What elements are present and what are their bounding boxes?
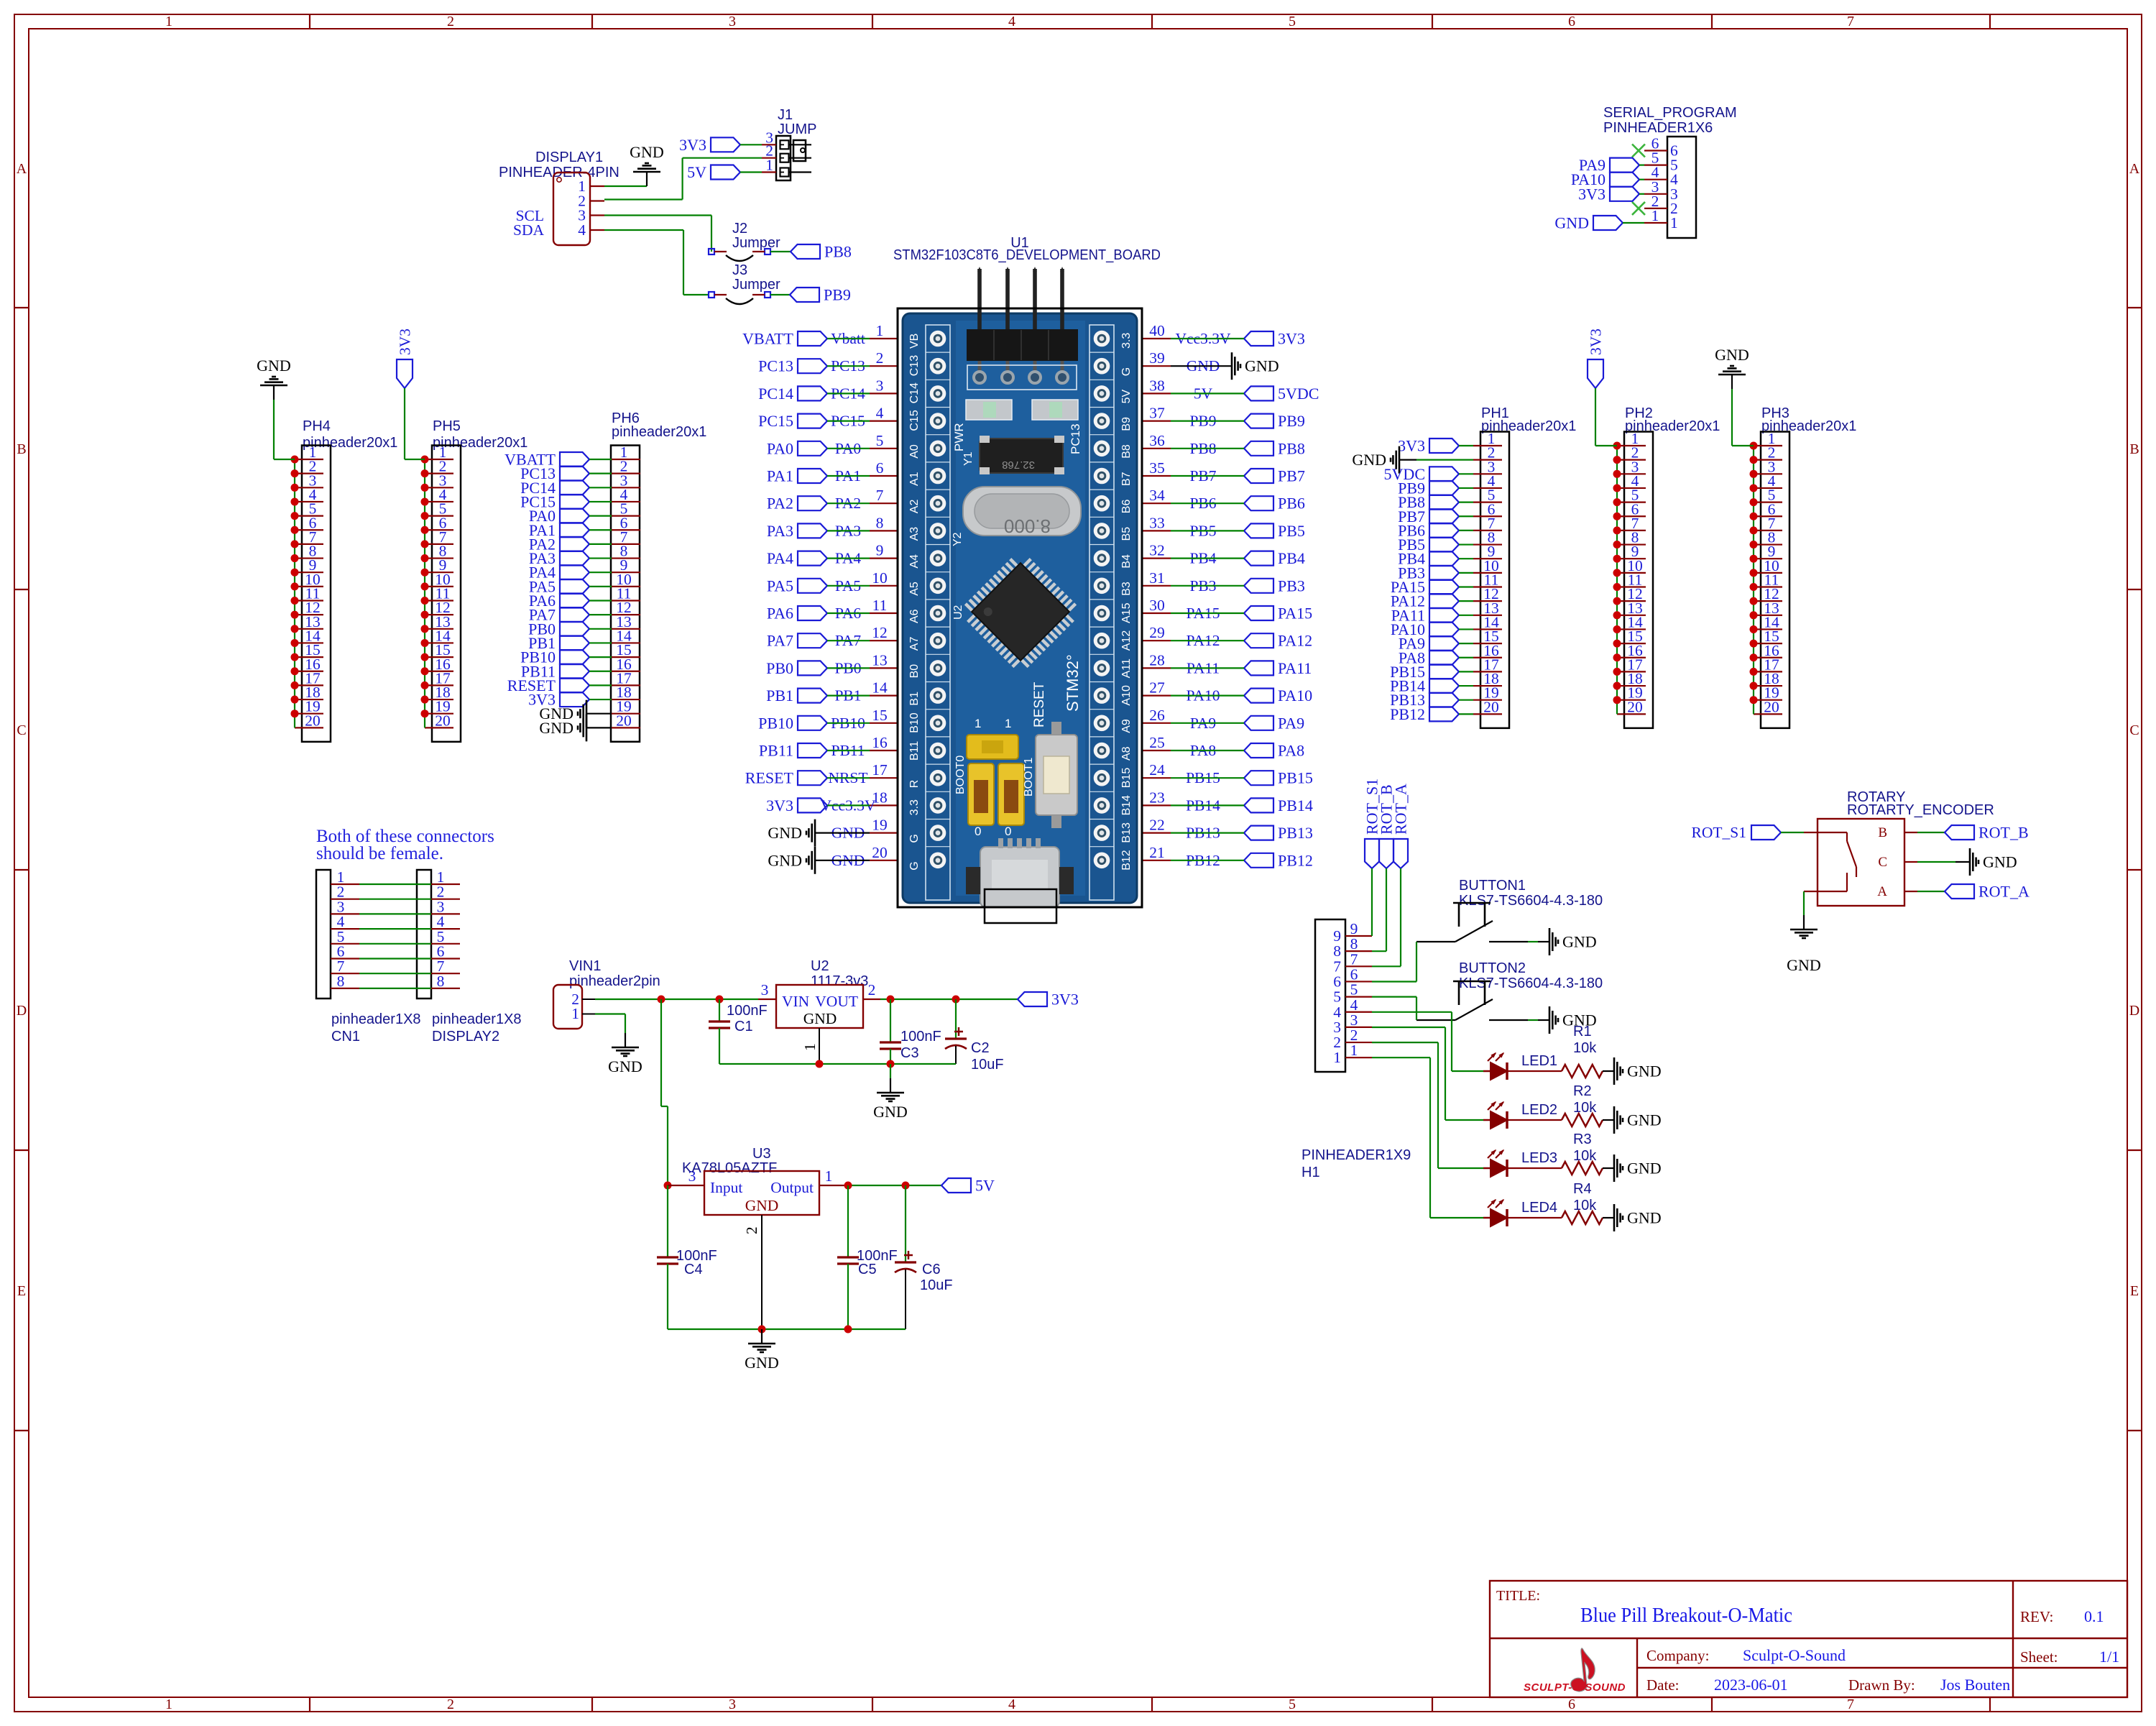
svg-text:PA10: PA10 <box>1278 687 1312 704</box>
svg-text:A3: A3 <box>908 527 921 541</box>
svg-text:GND: GND <box>630 143 664 161</box>
svg-text:Sheet:: Sheet: <box>2020 1648 2058 1666</box>
svg-text:2: 2 <box>447 1697 454 1712</box>
svg-text:32: 32 <box>1149 542 1165 559</box>
svg-text:3: 3 <box>729 14 736 29</box>
svg-text:4: 4 <box>876 405 884 422</box>
svg-text:pinheader20x1: pinheader20x1 <box>433 435 528 451</box>
svg-text:1: 1 <box>571 1005 579 1022</box>
svg-text:3: 3 <box>761 981 769 999</box>
svg-text:H1: H1 <box>1302 1165 1320 1180</box>
svg-text:R3: R3 <box>1573 1131 1592 1147</box>
svg-text:7: 7 <box>876 487 884 504</box>
svg-text:PH5: PH5 <box>433 418 461 434</box>
svg-text:A: A <box>1877 884 1887 899</box>
svg-text:1: 1 <box>825 1167 833 1185</box>
svg-text:4: 4 <box>578 221 586 239</box>
svg-text:ROT_B: ROT_B <box>1978 824 2029 842</box>
svg-text:13: 13 <box>872 651 888 669</box>
svg-text:20: 20 <box>435 712 451 729</box>
svg-text:5V: 5V <box>975 1177 995 1195</box>
svg-text:10k: 10k <box>1573 1198 1597 1213</box>
svg-text:21: 21 <box>1149 844 1165 861</box>
svg-text:8: 8 <box>437 973 445 990</box>
svg-text:4: 4 <box>1008 1697 1015 1712</box>
svg-text:3V3: 3V3 <box>679 136 706 154</box>
svg-text:17: 17 <box>872 761 888 779</box>
svg-text:10: 10 <box>872 569 888 587</box>
svg-text:PB3: PB3 <box>1278 577 1305 595</box>
svg-text:Jumper: Jumper <box>732 277 780 293</box>
svg-text:5: 5 <box>876 432 884 449</box>
svg-text:30: 30 <box>1149 597 1165 614</box>
svg-text:5VDC: 5VDC <box>1278 385 1319 403</box>
svg-text:10k: 10k <box>1573 1148 1597 1164</box>
svg-text:PB12: PB12 <box>1278 851 1313 869</box>
svg-text:38: 38 <box>1149 377 1165 394</box>
svg-text:R4: R4 <box>1573 1181 1592 1197</box>
svg-text:B13: B13 <box>1120 822 1133 843</box>
svg-text:PINHEADER1X6: PINHEADER1X6 <box>1603 120 1713 136</box>
svg-text:GND: GND <box>745 1354 779 1372</box>
svg-text:U2: U2 <box>811 958 829 974</box>
svg-text:PB13: PB13 <box>1278 824 1313 842</box>
svg-text:37: 37 <box>1149 405 1165 422</box>
svg-text:8: 8 <box>876 514 884 531</box>
svg-text:B6: B6 <box>1120 500 1133 514</box>
svg-text:33: 33 <box>1149 514 1165 531</box>
svg-text:1: 1 <box>876 322 884 339</box>
svg-text:B5: B5 <box>1120 527 1133 541</box>
svg-text:PA2: PA2 <box>767 495 793 513</box>
svg-text:GND: GND <box>1627 1160 1662 1178</box>
svg-text:PA8: PA8 <box>1278 742 1304 760</box>
svg-text:A9: A9 <box>1120 719 1133 733</box>
svg-text:KA78L05AZTF: KA78L05AZTF <box>682 1160 777 1176</box>
svg-text:PB7: PB7 <box>1278 467 1305 485</box>
svg-text:3V3: 3V3 <box>1278 330 1305 348</box>
svg-text:10uF: 10uF <box>920 1277 953 1293</box>
svg-text:G: G <box>1120 367 1133 376</box>
svg-text:2: 2 <box>447 14 454 29</box>
svg-text:1: 1 <box>765 157 773 174</box>
svg-text:Company:: Company: <box>1646 1647 1710 1664</box>
svg-text:A2: A2 <box>908 500 921 514</box>
svg-text:PC15: PC15 <box>758 412 793 430</box>
svg-text:2: 2 <box>868 981 876 999</box>
svg-text:20: 20 <box>616 712 632 729</box>
svg-text:A8: A8 <box>1120 746 1133 761</box>
svg-text:3V3: 3V3 <box>397 329 414 355</box>
svg-text:GND: GND <box>745 1197 779 1214</box>
svg-text:29: 29 <box>1149 624 1165 641</box>
svg-text:8: 8 <box>337 973 345 990</box>
svg-text:pinheader20x1: pinheader20x1 <box>303 435 397 451</box>
svg-text:A10: A10 <box>1120 685 1133 706</box>
svg-text:14: 14 <box>872 679 888 697</box>
svg-text:Drawn By:: Drawn By: <box>1848 1676 1915 1694</box>
svg-text:VIN: VIN <box>782 993 810 1010</box>
svg-text:32.768: 32.768 <box>1002 459 1035 471</box>
svg-text:PA4: PA4 <box>767 549 793 567</box>
svg-text:PB4: PB4 <box>1278 549 1305 567</box>
svg-text:A4: A4 <box>908 554 921 569</box>
svg-text:LED2: LED2 <box>1521 1102 1557 1118</box>
svg-text:E: E <box>17 1283 26 1299</box>
svg-text:PA9: PA9 <box>1278 714 1304 732</box>
svg-text:Input: Input <box>710 1179 742 1196</box>
svg-text:GND: GND <box>768 824 802 842</box>
svg-text:should be female.: should be female. <box>316 844 443 863</box>
svg-text:REV:: REV: <box>2020 1608 2053 1625</box>
svg-text:pinheader1X8: pinheader1X8 <box>331 1011 421 1027</box>
svg-text:6: 6 <box>1568 14 1575 29</box>
svg-text:PINHEADER1X9: PINHEADER1X9 <box>1302 1147 1411 1163</box>
svg-text:PC13: PC13 <box>758 357 793 375</box>
svg-text:3.3: 3.3 <box>1120 333 1133 349</box>
svg-text:C1: C1 <box>734 1019 753 1034</box>
svg-text:SERIAL_PROGRAM: SERIAL_PROGRAM <box>1603 105 1737 121</box>
svg-text:0: 0 <box>975 825 981 838</box>
svg-text:E: E <box>2130 1283 2139 1299</box>
svg-text:3V3: 3V3 <box>1588 329 1605 355</box>
svg-text:PA7: PA7 <box>767 632 793 650</box>
svg-text:Sculpt-O-Sound: Sculpt-O-Sound <box>1743 1646 1846 1664</box>
svg-text:STM32F103C8T6_DEVELOPMENT_BOAR: STM32F103C8T6_DEVELOPMENT_BOARD <box>893 247 1161 263</box>
svg-text:20: 20 <box>872 844 888 861</box>
svg-text:B14: B14 <box>1120 795 1133 816</box>
svg-text:STM32°: STM32° <box>1064 654 1082 712</box>
svg-text:B: B <box>1878 825 1887 840</box>
svg-text:VB: VB <box>908 334 921 349</box>
svg-text:GND: GND <box>1245 357 1279 375</box>
svg-text:PA11: PA11 <box>1278 659 1312 677</box>
svg-text:5V: 5V <box>1120 390 1133 404</box>
svg-text:19: 19 <box>872 817 888 834</box>
svg-text:25: 25 <box>1149 734 1165 751</box>
svg-text:LED3: LED3 <box>1521 1150 1557 1166</box>
svg-text:20: 20 <box>1627 698 1643 715</box>
svg-text:8.000: 8.000 <box>1004 515 1051 537</box>
svg-text:GND: GND <box>1715 346 1749 364</box>
svg-text:C13: C13 <box>908 355 921 376</box>
svg-text:PB12: PB12 <box>1390 705 1425 723</box>
svg-text:12: 12 <box>872 624 888 641</box>
svg-text:B: B <box>2129 441 2139 457</box>
svg-text:PWR: PWR <box>952 423 966 451</box>
svg-text:A1: A1 <box>908 472 921 486</box>
svg-text:16: 16 <box>872 734 888 751</box>
svg-text:11: 11 <box>872 597 888 614</box>
svg-text:3: 3 <box>876 377 884 394</box>
svg-text:SCULPT-O-SOUND: SCULPT-O-SOUND <box>1524 1681 1626 1694</box>
svg-text:39: 39 <box>1149 349 1165 367</box>
svg-text:3V3: 3V3 <box>1051 991 1079 1009</box>
svg-text:20: 20 <box>305 712 321 729</box>
svg-text:ROTARTY_ENCODER: ROTARTY_ENCODER <box>1847 802 1994 818</box>
svg-text:5: 5 <box>1289 1697 1296 1712</box>
svg-text:10k: 10k <box>1573 1100 1597 1116</box>
svg-text:34: 34 <box>1149 487 1165 504</box>
svg-text:R2: R2 <box>1573 1083 1592 1099</box>
svg-text:PB14: PB14 <box>1278 797 1313 814</box>
svg-text:LED4: LED4 <box>1521 1200 1557 1216</box>
svg-text:PB8: PB8 <box>1278 439 1305 457</box>
svg-text:KLS7-TS6604-4.3-180: KLS7-TS6604-4.3-180 <box>1459 976 1603 991</box>
svg-text:PH4: PH4 <box>303 418 331 434</box>
svg-text:PA15: PA15 <box>1278 605 1312 623</box>
svg-text:RESET: RESET <box>1032 681 1047 727</box>
svg-text:GND: GND <box>1787 956 1821 974</box>
svg-text:23: 23 <box>1149 789 1165 806</box>
svg-text:3: 3 <box>729 1697 736 1712</box>
svg-text:7: 7 <box>1847 1697 1854 1712</box>
svg-text:PB10: PB10 <box>758 714 793 732</box>
svg-text:1: 1 <box>1333 1049 1341 1066</box>
svg-text:A0: A0 <box>908 444 921 459</box>
svg-text:GND: GND <box>1554 214 1589 232</box>
svg-text:VBATT: VBATT <box>742 330 793 348</box>
svg-text:20: 20 <box>1764 698 1779 715</box>
svg-text:GND: GND <box>1627 1062 1662 1080</box>
svg-text:7: 7 <box>1847 14 1854 29</box>
svg-text:ROT_A: ROT_A <box>1978 883 2030 901</box>
svg-text:TITLE:: TITLE: <box>1496 1588 1540 1604</box>
svg-text:pinheader1X8: pinheader1X8 <box>432 1011 522 1027</box>
svg-text:C15: C15 <box>908 410 921 431</box>
svg-text:27: 27 <box>1149 679 1165 697</box>
svg-text:B12: B12 <box>1120 850 1133 871</box>
svg-text:0.1: 0.1 <box>2084 1607 2104 1625</box>
svg-text:1: 1 <box>1670 214 1678 231</box>
svg-text:Both of these connectors: Both of these connectors <box>316 827 494 846</box>
svg-text:Y2: Y2 <box>952 532 964 546</box>
svg-text:B10: B10 <box>908 712 921 733</box>
svg-text:GND: GND <box>1627 1111 1662 1129</box>
svg-text:PB9: PB9 <box>824 286 851 304</box>
svg-text:1: 1 <box>1350 1042 1358 1059</box>
svg-text:C14: C14 <box>908 382 921 403</box>
svg-text:Blue Pill Breakout-O-Matic: Blue Pill Breakout-O-Matic <box>1580 1604 1792 1627</box>
svg-text:PB1: PB1 <box>766 687 793 704</box>
svg-text:PB6: PB6 <box>1278 495 1305 513</box>
svg-text:1: 1 <box>1005 717 1011 730</box>
svg-text:C: C <box>2129 722 2139 738</box>
svg-text:28: 28 <box>1149 651 1165 669</box>
svg-text:PC13: PC13 <box>1069 423 1082 454</box>
svg-text:Date:: Date: <box>1646 1676 1679 1694</box>
svg-text:U2: U2 <box>952 605 964 620</box>
svg-text:B11: B11 <box>908 741 921 761</box>
svg-text:10k: 10k <box>1573 1040 1597 1056</box>
svg-text:1: 1 <box>801 1043 819 1051</box>
svg-text:A7: A7 <box>908 637 921 651</box>
svg-text:PA12: PA12 <box>1278 632 1312 650</box>
svg-text:GND: GND <box>1352 451 1386 469</box>
svg-text:A15: A15 <box>1120 602 1133 623</box>
svg-text:PB9: PB9 <box>1278 412 1305 430</box>
svg-text:5V: 5V <box>687 163 706 181</box>
svg-text:20: 20 <box>1483 698 1499 715</box>
svg-text:GND: GND <box>257 357 291 375</box>
svg-text:B: B <box>17 441 26 457</box>
svg-text:VOUT: VOUT <box>815 993 858 1010</box>
svg-text:Jos Bouten: Jos Bouten <box>1940 1676 2010 1694</box>
svg-text:ROT_A: ROT_A <box>1392 784 1410 835</box>
svg-text:U3: U3 <box>752 1146 771 1162</box>
svg-text:3V3: 3V3 <box>766 797 793 814</box>
svg-text:R1: R1 <box>1573 1024 1592 1039</box>
svg-text:GND: GND <box>1562 933 1597 951</box>
svg-text:B15: B15 <box>1120 768 1133 789</box>
svg-text:R: R <box>908 780 921 789</box>
svg-text:BUTTON1: BUTTON1 <box>1459 878 1526 894</box>
svg-text:GND: GND <box>768 851 802 869</box>
svg-text:RESET: RESET <box>745 769 794 787</box>
svg-text:GND: GND <box>608 1057 642 1075</box>
svg-text:1: 1 <box>1651 207 1659 224</box>
svg-text:B4: B4 <box>1120 554 1133 569</box>
svg-text:A: A <box>2129 161 2140 177</box>
svg-text:PA5: PA5 <box>767 577 793 595</box>
svg-text:2023-06-01: 2023-06-01 <box>1714 1676 1788 1694</box>
svg-text:PC14: PC14 <box>758 385 793 403</box>
svg-text:C2: C2 <box>971 1040 990 1056</box>
svg-text:D: D <box>17 1003 27 1019</box>
svg-text:9: 9 <box>876 542 884 559</box>
svg-text:Y1: Y1 <box>962 451 975 466</box>
svg-text:DISPLAY1: DISPLAY1 <box>535 150 603 165</box>
svg-text:24: 24 <box>1149 761 1165 779</box>
svg-text:PA0: PA0 <box>767 439 793 457</box>
svg-text:B7: B7 <box>1120 472 1133 486</box>
svg-text:1: 1 <box>975 717 981 730</box>
svg-text:C3: C3 <box>900 1045 919 1061</box>
svg-text:GND: GND <box>1627 1209 1662 1227</box>
svg-text:GND: GND <box>803 1010 837 1027</box>
svg-text:KLS7-TS6604-4.3-180: KLS7-TS6604-4.3-180 <box>1459 893 1603 909</box>
svg-text:PB15: PB15 <box>1278 769 1313 787</box>
svg-text:A5: A5 <box>908 582 921 596</box>
svg-text:PB0: PB0 <box>766 659 793 677</box>
svg-text:100nF: 100nF <box>727 1003 768 1019</box>
svg-text:4: 4 <box>1008 14 1015 29</box>
svg-text:GND: GND <box>539 719 573 737</box>
svg-text:PB8: PB8 <box>824 243 852 261</box>
svg-text:40: 40 <box>1149 322 1165 339</box>
svg-text:PB11: PB11 <box>759 742 793 760</box>
svg-text:2: 2 <box>743 1226 760 1234</box>
svg-text:J1: J1 <box>778 107 793 123</box>
svg-text:26: 26 <box>1149 707 1165 724</box>
svg-text:6: 6 <box>1568 1697 1575 1712</box>
svg-text:C: C <box>17 722 26 738</box>
svg-text:BUTTON2: BUTTON2 <box>1459 960 1526 976</box>
svg-text:0: 0 <box>1005 825 1011 838</box>
svg-text:15: 15 <box>872 707 888 724</box>
svg-text:D: D <box>2129 1003 2139 1019</box>
svg-text:VIN1: VIN1 <box>569 958 601 974</box>
svg-text:B0: B0 <box>908 664 921 679</box>
svg-text:LED1: LED1 <box>1521 1053 1557 1069</box>
svg-text:B3: B3 <box>1120 582 1133 596</box>
svg-text:C5: C5 <box>858 1262 877 1277</box>
svg-text:35: 35 <box>1149 459 1165 477</box>
svg-text:pinheader2pin: pinheader2pin <box>569 973 660 989</box>
svg-text:1/1: 1/1 <box>2099 1648 2119 1666</box>
svg-text:1117-3v3: 1117-3v3 <box>811 973 868 989</box>
svg-text:PB5: PB5 <box>1278 522 1305 540</box>
svg-text:PA6: PA6 <box>767 605 793 623</box>
svg-text:A11: A11 <box>1120 658 1133 678</box>
svg-text:100nF: 100nF <box>900 1029 941 1045</box>
svg-text:BOOT0: BOOT0 <box>954 756 967 794</box>
svg-text:Jumper: Jumper <box>732 235 780 251</box>
svg-text:B9: B9 <box>1120 417 1133 431</box>
svg-text:J3: J3 <box>732 262 747 278</box>
svg-text:22: 22 <box>1149 817 1165 834</box>
svg-text:36: 36 <box>1149 432 1165 449</box>
svg-text:pinheader20x1: pinheader20x1 <box>612 424 706 440</box>
svg-text:DISPLAY2: DISPLAY2 <box>432 1029 499 1045</box>
svg-text:6: 6 <box>876 459 884 477</box>
svg-text:3V3: 3V3 <box>1398 437 1425 455</box>
svg-text:SDA: SDA <box>513 221 544 239</box>
svg-text:10uF: 10uF <box>971 1057 1004 1073</box>
svg-text:C: C <box>1878 855 1887 870</box>
svg-text:5: 5 <box>1289 14 1296 29</box>
svg-text:BOOT1: BOOT1 <box>1023 758 1035 797</box>
svg-text:GND: GND <box>1983 853 2017 871</box>
svg-text:2: 2 <box>876 349 884 367</box>
svg-text:G: G <box>908 834 921 843</box>
svg-text:C6: C6 <box>922 1262 941 1277</box>
svg-text:PA3: PA3 <box>767 522 793 540</box>
svg-text:1: 1 <box>165 14 172 29</box>
svg-text:ROT_S1: ROT_S1 <box>1692 824 1746 841</box>
svg-text:1: 1 <box>165 1697 172 1712</box>
svg-text:C4: C4 <box>684 1262 703 1277</box>
svg-text:B8: B8 <box>1120 444 1133 459</box>
svg-text:3.3: 3.3 <box>908 799 921 815</box>
svg-text:31: 31 <box>1149 569 1165 587</box>
svg-text:GND: GND <box>873 1103 908 1121</box>
svg-text:CN1: CN1 <box>331 1029 360 1045</box>
svg-text:Output: Output <box>770 1179 814 1196</box>
svg-text:A: A <box>17 161 27 177</box>
svg-text:PA1: PA1 <box>767 467 793 485</box>
svg-text:JUMP: JUMP <box>778 121 816 137</box>
svg-text:G: G <box>908 861 921 870</box>
svg-text:A6: A6 <box>908 609 921 623</box>
svg-text:A12: A12 <box>1120 630 1133 651</box>
svg-text:J2: J2 <box>732 221 747 237</box>
svg-text:3V3: 3V3 <box>1578 185 1606 203</box>
svg-text:B1: B1 <box>908 692 921 706</box>
